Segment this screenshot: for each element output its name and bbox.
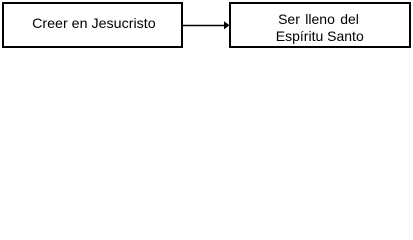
- wire: arrow from left box to right box: [0, 0, 413, 56]
- box: Ser lleno del Espíritu Santo: [229, 2, 411, 48]
- box: Creer en Jesucristo: [2, 2, 183, 48]
